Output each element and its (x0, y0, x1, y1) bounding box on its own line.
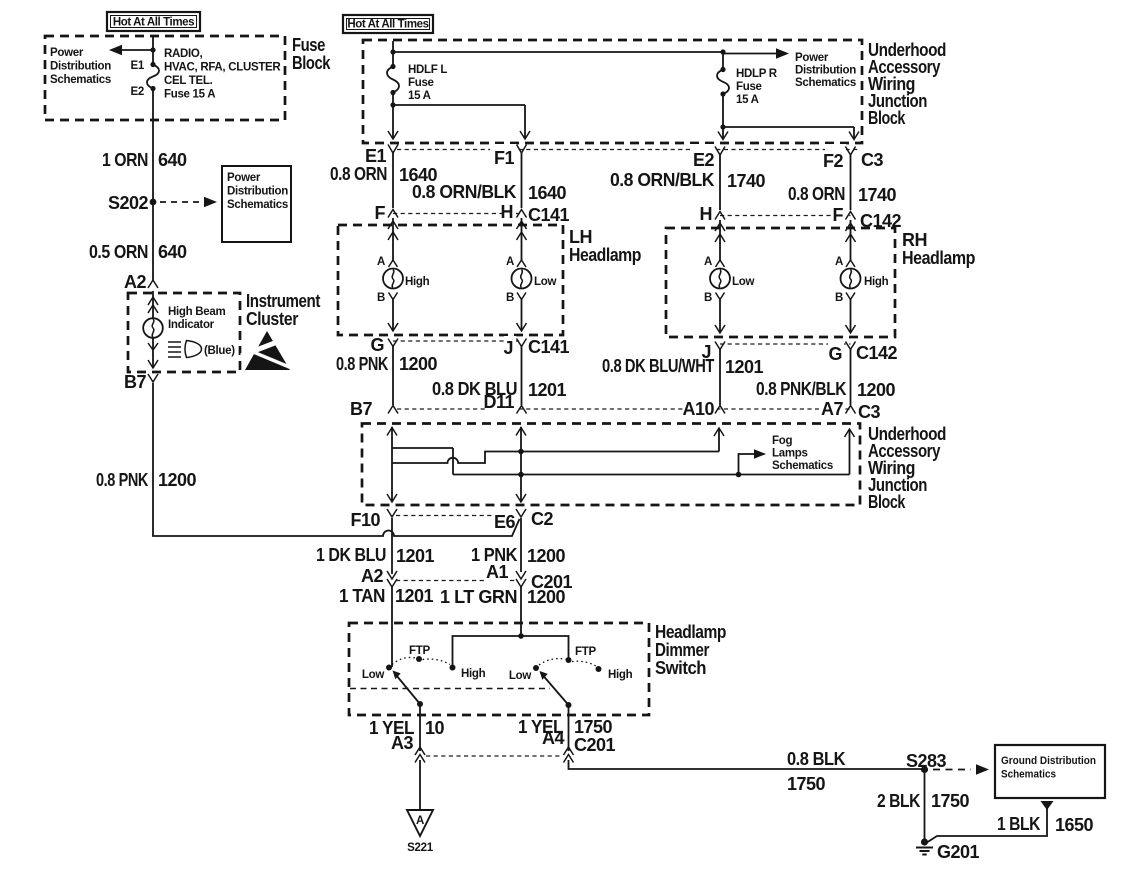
svg-text:HDLP R: HDLP R (736, 68, 778, 80)
node: fuse feed junction (150, 47, 155, 52)
svg-text:1 BLK: 1 BLK (997, 814, 1040, 834)
switch travel arcs (left) (392, 657, 416, 664)
svg-text:1201: 1201 (528, 380, 567, 400)
svg-text:0.8 ORN/BLK: 0.8 ORN/BLK (412, 182, 516, 202)
wire: B7 down and right to E6 feed (153, 383, 520, 536)
connector row B7/D11/A10/A7 C3 (light dashed) (397, 408, 853, 410)
hot-at-all-times label (left) (107, 12, 200, 31)
svg-text:E1: E1 (365, 146, 387, 166)
svg-text:1201: 1201 (725, 357, 764, 377)
svg-text:Low: Low (509, 670, 531, 682)
wire: RH low to J (719, 299, 721, 333)
node: fog lamp tap (736, 472, 742, 478)
wire: dashed arrow S283 to ground distribution schematics (933, 769, 971, 771)
svg-text:1640: 1640 (528, 183, 567, 203)
svg-text:C201: C201 (574, 735, 616, 755)
svg-text:E6: E6 (494, 512, 516, 532)
underhood junction block top (dashed box) (363, 40, 862, 143)
svg-text:Schematics: Schematics (772, 460, 833, 472)
lamp: high beam indicator (143, 318, 163, 338)
svg-text:G: G (828, 344, 842, 364)
node: D11 on A7 rail (518, 472, 524, 478)
wire: lower rail to A7 (453, 474, 850, 476)
svg-text:1201: 1201 (395, 586, 434, 606)
svg-text:Fuse: Fuse (736, 81, 762, 93)
bulb: RH high beam (841, 269, 861, 289)
switch contact: low (right) (533, 665, 539, 671)
box: ground distribution schematics (995, 745, 1105, 798)
svg-text:RH: RH (902, 230, 927, 250)
svg-text:1200: 1200 (857, 380, 896, 400)
svg-text:A1: A1 (486, 562, 508, 582)
svg-text:F1: F1 (494, 148, 514, 168)
switch lever (right) (566, 702, 572, 708)
svg-text:Distribution: Distribution (795, 65, 856, 77)
svg-text:Ground Distribution: Ground Distribution (1001, 755, 1096, 767)
svg-text:0.8 ORN: 0.8 ORN (788, 184, 845, 204)
svg-text:1200: 1200 (158, 470, 197, 490)
fuse: RADIO HVAC 15A (150, 62, 155, 67)
svg-text:0.8 DK BLU/WHT: 0.8 DK BLU/WHT (602, 356, 714, 376)
icon: ESD symbol (241, 331, 294, 370)
ground G201 (921, 838, 928, 845)
svg-text:0.8 BLK: 0.8 BLK (787, 749, 845, 769)
wire: into cluster (152, 291, 154, 319)
svg-text:Fog: Fog (772, 435, 792, 447)
svg-text:Distribution: Distribution (50, 61, 111, 73)
svg-text:F: F (375, 203, 386, 223)
svg-text:1200: 1200 (527, 546, 566, 566)
wire J-A10 (719, 349, 721, 405)
underhood junction block middle (dashed box) (362, 424, 860, 506)
svg-text:C2: C2 (531, 509, 553, 529)
svg-text:C142: C142 (856, 343, 898, 363)
svg-text:FTP: FTP (409, 645, 430, 657)
svg-text:Schematics: Schematics (227, 199, 288, 211)
wire: B7 to F10 vertical (391, 427, 393, 502)
svg-text:High: High (461, 668, 486, 680)
svg-text:A: A (835, 256, 843, 268)
wire: riser to A7 (849, 429, 851, 475)
svg-text:G: G (370, 335, 384, 355)
wire: arrow to fog lamps schematics (739, 454, 756, 475)
svg-text:B7: B7 (350, 399, 372, 419)
svg-text:A7: A7 (821, 399, 843, 419)
wire: F10 down (391, 518, 393, 574)
wire: RH high to G (850, 299, 852, 333)
svg-text:RADIO,: RADIO, (164, 48, 203, 60)
svg-text:15 A: 15 A (736, 94, 759, 106)
wire: S283 to G201 (924, 770, 926, 842)
wire: fuse to S202 (152, 89, 154, 203)
svg-text:G201: G201 (937, 842, 980, 862)
svg-text:Power: Power (50, 47, 84, 59)
fuse block (dashed box) (45, 36, 285, 120)
wire: top feed rail (393, 41, 723, 70)
svg-text:High Beam: High Beam (168, 306, 225, 318)
icon: headlamp beam (168, 342, 181, 357)
bulb: LH low beam (512, 269, 532, 289)
svg-text:HVAC, RFA, CLUSTER: HVAC, RFA, CLUSTER (164, 62, 281, 74)
svg-text:H: H (501, 202, 514, 222)
bulb: RH low beam (710, 269, 730, 289)
connector row C141/C142 upper (light dashed) (397, 149, 858, 151)
wire F2-F (850, 155, 852, 210)
svg-text:1 TAN: 1 TAN (339, 586, 385, 606)
wire: riser to A10 (718, 428, 720, 452)
svg-text:1750: 1750 (931, 791, 970, 811)
wire: S202 to instrument cluster (152, 202, 154, 280)
svg-text:Low: Low (732, 276, 754, 288)
svg-text:1750: 1750 (574, 717, 613, 737)
instrument cluster (dashed box) (128, 293, 240, 372)
svg-text:FTP: FTP (575, 646, 596, 658)
wire: D11 to E6 vertical (520, 427, 522, 502)
wire: A4 to S283 (569, 760, 925, 769)
wire: schematics box to G201 (1041, 801, 1054, 810)
svg-text:B7: B7 (124, 372, 146, 392)
svg-text:High: High (608, 669, 633, 681)
wire: LH high to G (392, 299, 394, 331)
bulb: LH high beam (383, 269, 403, 289)
svg-text:10: 10 (425, 718, 445, 738)
wire: into LH high (392, 218, 394, 260)
svg-text:Block: Block (292, 53, 331, 73)
LH headlamp (dashed box) (338, 225, 563, 335)
svg-text:1750: 1750 (787, 774, 826, 794)
wire: HDLF L to E1/F1 (393, 93, 525, 139)
svg-text:High: High (864, 276, 889, 288)
svg-text:E2: E2 (131, 86, 144, 98)
svg-text:Schematics: Schematics (795, 77, 856, 89)
svg-text:A: A (704, 256, 712, 268)
wire: lever to A3 (419, 704, 421, 751)
wire: into LH low (521, 218, 523, 260)
svg-text:Headlamp: Headlamp (569, 245, 641, 265)
svg-text:B: B (506, 292, 514, 304)
wire: A1 to dimmer feed (520, 586, 522, 636)
svg-text:0.5 ORN: 0.5 ORN (89, 242, 148, 262)
svg-text:1200: 1200 (527, 587, 566, 607)
svg-text:A: A (377, 256, 385, 268)
svg-text:A2: A2 (124, 272, 146, 292)
wire: feed into fuse E1 (152, 36, 154, 65)
svg-text:High: High (405, 276, 430, 288)
wire E1-F (392, 153, 394, 208)
wire: dimmer feed rail (453, 636, 569, 665)
node: left rail junction (390, 49, 395, 54)
box: power distribution schematics (solid) (222, 166, 291, 242)
svg-text:A10: A10 (682, 399, 714, 419)
switch contact: FTP (right) (566, 657, 572, 663)
svg-text:A4: A4 (542, 728, 564, 748)
node: dimmer feed (518, 633, 524, 639)
fuse HDLP R 15A (720, 67, 725, 72)
svg-text:Distribution: Distribution (227, 186, 288, 198)
wire: into RH high (850, 220, 852, 260)
svg-text:(Blue): (Blue) (204, 345, 235, 357)
svg-text:0.8 ORN/BLK: 0.8 ORN/BLK (610, 170, 714, 190)
svg-text:0.8 PNK/BLK: 0.8 PNK/BLK (756, 379, 846, 399)
RH headlamp (dashed box) (666, 228, 895, 337)
svg-text:Low: Low (534, 276, 556, 288)
svg-text:1201: 1201 (396, 546, 435, 566)
wire F1-H (521, 153, 523, 208)
wire: rail B7 hop to A10 rail (392, 452, 719, 464)
svg-text:Instrument: Instrument (246, 291, 320, 311)
svg-text:Headlamp: Headlamp (655, 622, 726, 642)
svg-text:B: B (377, 292, 385, 304)
switch contact: high (right) (596, 666, 602, 672)
svg-text:Dimmer: Dimmer (655, 640, 709, 660)
svg-text:F10: F10 (350, 510, 380, 530)
svg-text:HDLF L: HDLF L (408, 64, 447, 76)
svg-text:Hot At All Times: Hot At All Times (113, 17, 194, 29)
internal divider (dashed) (350, 688, 550, 690)
svg-text:E1: E1 (131, 60, 145, 72)
svg-text:640: 640 (158, 150, 187, 170)
svg-text:Fuse: Fuse (292, 35, 325, 55)
svg-text:A2: A2 (361, 566, 383, 586)
svg-text:Headlamp: Headlamp (902, 248, 975, 268)
svg-text:C141: C141 (528, 337, 570, 357)
wire: lamp to B7 (152, 337, 154, 368)
svg-text:A: A (506, 256, 514, 268)
svg-text:Schematics: Schematics (1001, 769, 1056, 781)
svg-text:B: B (704, 292, 712, 304)
hot-at-all-times label (center) (343, 15, 433, 33)
wire: E6 down (520, 518, 522, 572)
switch lever (left) (417, 701, 423, 707)
svg-text:Cluster: Cluster (246, 309, 298, 329)
svg-text:B: B (835, 292, 843, 304)
svg-text:Switch: Switch (655, 658, 706, 678)
wire: dashed arrow S202 to schematics box (160, 201, 204, 203)
wire: LH low to J (521, 299, 523, 331)
svg-text:Indicator: Indicator (168, 319, 215, 331)
connector row G/J C141 (light dashed) (393, 340, 522, 342)
svg-text:F: F (833, 205, 844, 225)
svg-text:Block: Block (868, 108, 906, 128)
svg-text:1740: 1740 (858, 185, 897, 205)
headlamp dimmer switch (dashed box) (349, 623, 649, 715)
svg-text:Fuse 15 A: Fuse 15 A (164, 89, 215, 101)
connector row F10/E6 C2 (light dashed) (396, 515, 517, 517)
node: right rail junction (720, 49, 725, 54)
wire: arrow to power distribution schematics (left) (120, 49, 152, 51)
svg-text:F2: F2 (823, 151, 843, 171)
svg-text:S221: S221 (407, 842, 434, 854)
svg-text:0.8 PNK: 0.8 PNK (96, 470, 148, 490)
svg-text:1 ORN: 1 ORN (102, 150, 148, 170)
connector row F/H C141 (light dashed) (393, 213, 522, 215)
svg-text:15 A: 15 A (408, 90, 431, 102)
svg-text:Schematics: Schematics (50, 74, 111, 86)
connector row A2/A1 C201 (light dashed) (396, 580, 517, 582)
svg-text:1650: 1650 (1055, 815, 1094, 835)
svg-text:Power: Power (795, 52, 829, 64)
svg-text:A: A (416, 815, 424, 827)
svg-text:1200: 1200 (399, 354, 438, 374)
wire G-A7 (850, 349, 852, 405)
svg-text:Block: Block (868, 492, 906, 512)
wire: into RH low (719, 220, 721, 260)
wire G-B7 (392, 346, 394, 405)
svg-text:LH: LH (569, 227, 592, 247)
svg-text:1740: 1740 (727, 171, 766, 191)
svg-text:0.8 ORN: 0.8 ORN (330, 164, 387, 184)
svg-text:640: 640 (158, 242, 187, 262)
svg-text:CEL TEL.: CEL TEL. (164, 75, 213, 87)
svg-text:Hot At All Times: Hot At All Times (347, 19, 428, 31)
svg-text:S202: S202 (108, 193, 149, 213)
ground ref S221 (triangle) (407, 810, 433, 836)
wire: A3 to S221 (419, 760, 421, 810)
svg-text:C141: C141 (528, 205, 570, 225)
svg-text:C3: C3 (861, 150, 883, 170)
svg-text:2 BLK: 2 BLK (877, 791, 920, 811)
node: D11 on A10 rail (518, 449, 524, 455)
connector row A3/A4 C201 (light dashed) (426, 755, 562, 757)
wire: HDLP R to E2/F2 (723, 94, 854, 139)
svg-text:Lamps: Lamps (772, 448, 808, 460)
svg-text:0.8 PNK: 0.8 PNK (336, 354, 388, 374)
wire: lever to A4 (568, 705, 570, 751)
wire J-D11 (521, 346, 523, 405)
svg-text:A3: A3 (391, 733, 413, 753)
svg-text:C3: C3 (858, 402, 880, 422)
svg-text:Fuse: Fuse (408, 77, 434, 89)
svg-text:J: J (503, 338, 513, 358)
wire: rail B7 to A7 (upper left branch) (392, 448, 453, 475)
svg-text:E2: E2 (693, 150, 715, 170)
svg-text:H: H (700, 204, 713, 224)
svg-text:Low: Low (362, 669, 384, 681)
svg-text:D11: D11 (483, 392, 514, 412)
switch contact: low (left) (386, 665, 392, 671)
fuse HDLF L 15A (390, 64, 395, 69)
wire: A2 to dimmer low (391, 586, 393, 667)
svg-text:Power: Power (227, 172, 261, 184)
switch contact: FTP (left) (416, 656, 422, 662)
wire: arrow to power distribution schematics (right) (723, 53, 776, 55)
wire E2-H (719, 155, 721, 210)
switch travel arcs (right) (539, 659, 566, 665)
switch contact: high (left) (450, 665, 456, 671)
svg-text:1 LT GRN: 1 LT GRN (440, 587, 517, 607)
svg-text:1 DK BLU: 1 DK BLU (316, 545, 386, 565)
